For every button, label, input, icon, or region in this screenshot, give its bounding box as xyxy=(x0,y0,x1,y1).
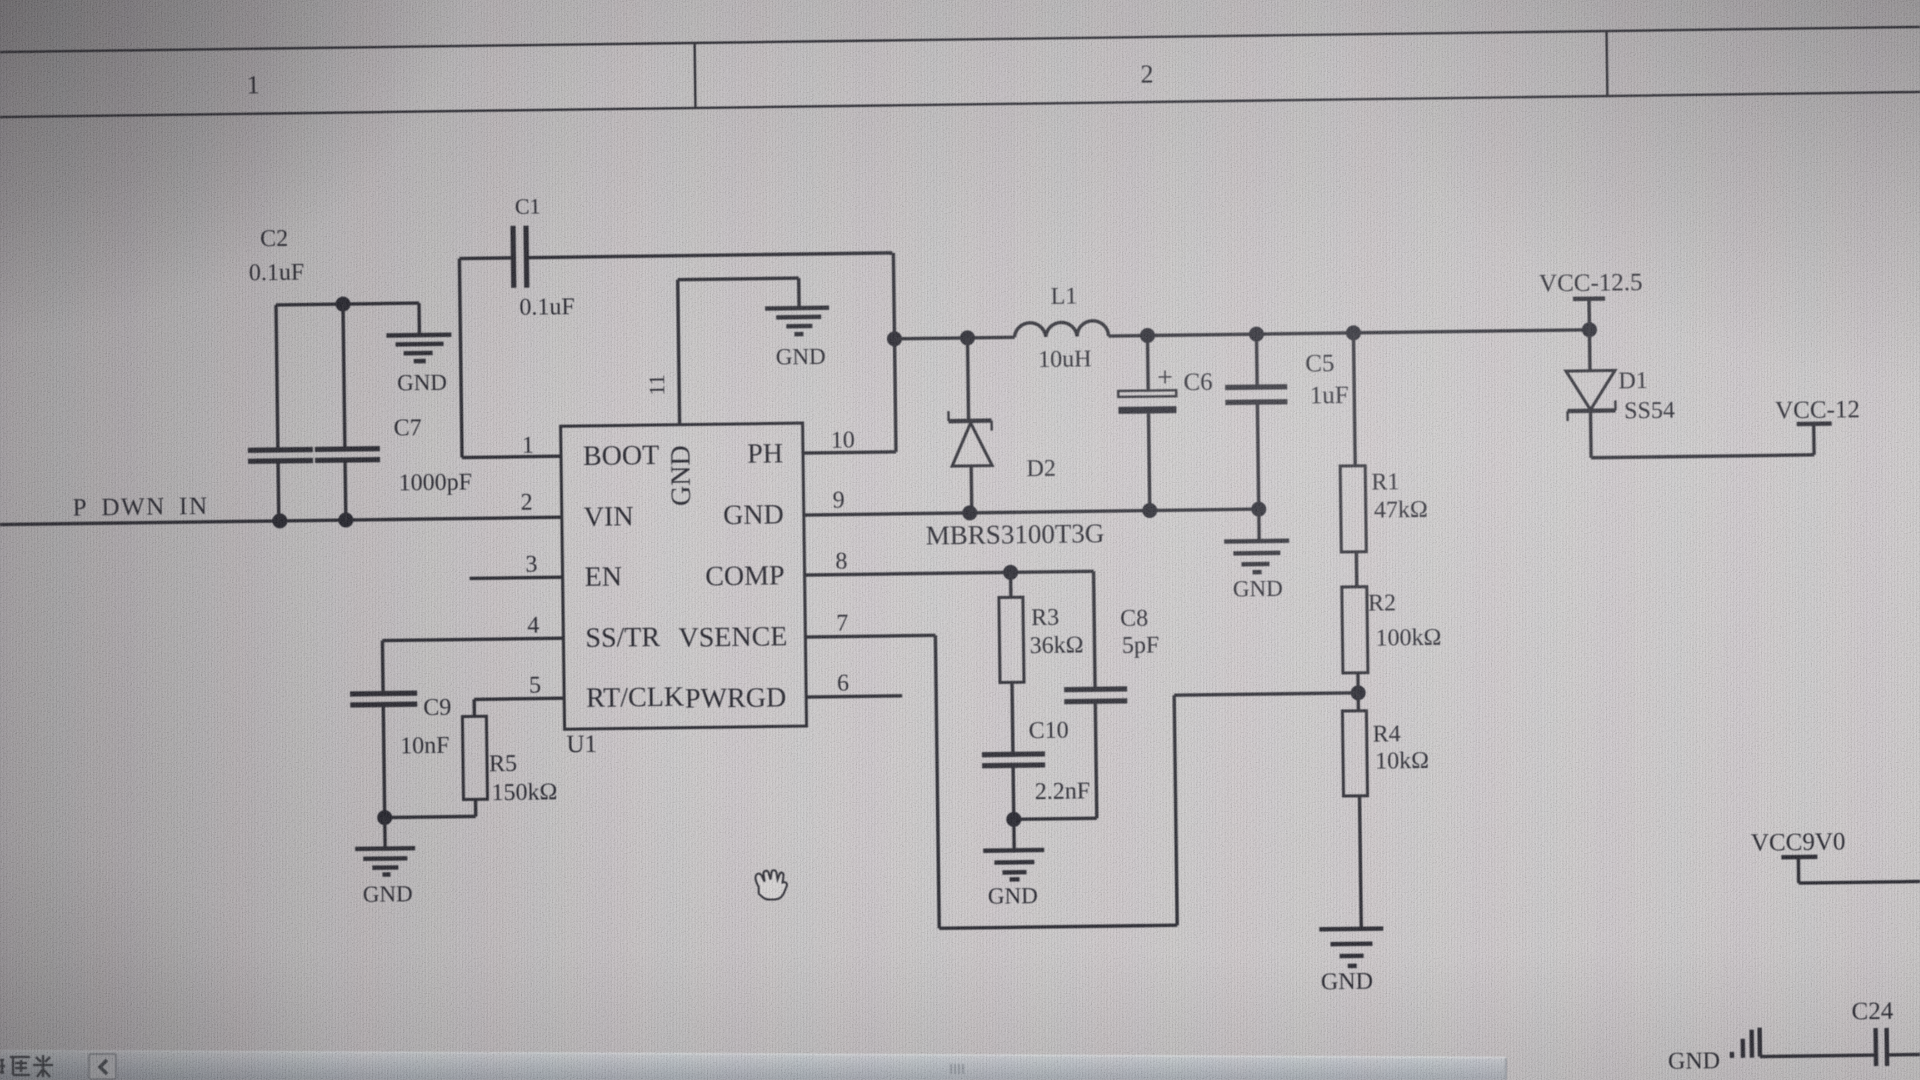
ground symbol below R4 xyxy=(1319,929,1384,996)
svg-text:10kΩ: 10kΩ xyxy=(1375,748,1429,775)
svg-text:150kΩ: 150kΩ xyxy=(491,779,557,806)
svg-text:C7: C7 xyxy=(393,415,421,441)
node junction C10/C8/GND xyxy=(1006,812,1021,827)
svg-text:R4: R4 xyxy=(1373,721,1401,747)
wire pin1 BOOT xyxy=(462,456,561,457)
svg-text:2.2nF: 2.2nF xyxy=(1035,778,1091,805)
svg-text:100kΩ: 100kΩ xyxy=(1375,625,1441,652)
IC pin name EN xyxy=(584,561,622,592)
node junction D1-top xyxy=(1582,322,1597,337)
svg-text:0.1uF: 0.1uF xyxy=(249,260,305,287)
svg-text:VCC9V0: VCC9V0 xyxy=(1751,828,1846,856)
sheet zone border bottom line xyxy=(0,92,1920,118)
svg-text:9: 9 xyxy=(832,488,844,514)
svg-text:VCC-12: VCC-12 xyxy=(1775,396,1860,424)
IC pin name PWRGD xyxy=(685,682,787,714)
svg-text:10uH: 10uH xyxy=(1038,346,1092,373)
ground symbol below C9 xyxy=(355,817,416,907)
svg-text:+: + xyxy=(1157,362,1173,393)
svg-text:D1: D1 xyxy=(1618,368,1648,394)
IC pin name BOOT xyxy=(583,440,660,472)
sheet zone border top line xyxy=(0,27,1920,53)
IC pin name COMP xyxy=(705,560,785,592)
wire C2/C7 top xyxy=(276,303,419,305)
pin number 1 xyxy=(522,433,534,459)
capacitor C24 partial xyxy=(1759,997,1920,1067)
svg-text:U1: U1 xyxy=(566,731,597,758)
zone label 2 xyxy=(1140,59,1153,88)
net label P_DWN_IN xyxy=(72,493,208,522)
pin number 11 rotated xyxy=(644,374,669,396)
svg-text:1: 1 xyxy=(246,70,259,99)
resistor R5 xyxy=(383,698,557,817)
svg-text:C5: C5 xyxy=(1305,350,1335,377)
power symbol VCC-12.5 xyxy=(1539,269,1643,330)
zone divider 2 xyxy=(1605,31,1608,96)
wire pin4 SS/TR xyxy=(382,612,563,640)
power symbol VCC9V0 xyxy=(1751,827,1920,884)
svg-text:6: 6 xyxy=(837,670,849,696)
sheet zone band highlight xyxy=(0,27,1920,118)
svg-text:C8: C8 xyxy=(1120,606,1148,632)
svg-text:GND: GND xyxy=(723,499,784,531)
svg-text:GND: GND xyxy=(1668,1048,1720,1075)
svg-text:GND: GND xyxy=(776,344,826,370)
svg-text:1uF: 1uF xyxy=(1310,382,1349,410)
node junction C7-top xyxy=(335,296,350,311)
wire pin9 GND net row xyxy=(803,482,1258,515)
svg-text:L1: L1 xyxy=(1050,283,1077,309)
svg-text:C9: C9 xyxy=(423,695,451,721)
wire switch node to L1 xyxy=(895,337,1015,339)
svg-text:PWRGD: PWRGD xyxy=(685,682,787,714)
wire pin5 RT/CLK xyxy=(474,672,564,699)
power symbol VCC-12 xyxy=(1775,396,1860,424)
IC pin name GND xyxy=(723,499,784,531)
scrollbar grip xyxy=(951,1064,963,1074)
svg-text:5: 5 xyxy=(529,673,541,699)
resistor R2 xyxy=(1342,586,1442,693)
capacitor C2 xyxy=(245,226,314,522)
svg-text:47kΩ: 47kΩ xyxy=(1374,497,1428,524)
node junction C6-bottom xyxy=(1142,503,1157,518)
svg-text:11: 11 xyxy=(644,374,669,396)
svg-text:EN: EN xyxy=(584,561,622,592)
wire pin3 EN stub xyxy=(469,551,562,578)
svg-text:7: 7 xyxy=(836,610,848,636)
svg-text:SS/TR: SS/TR xyxy=(585,622,660,654)
capacitor C7 xyxy=(313,302,472,520)
capacitor C8 xyxy=(1011,570,1162,819)
svg-text:GND: GND xyxy=(1233,576,1283,602)
status text 厘米 glyphs xyxy=(0,1055,53,1077)
svg-text:C6: C6 xyxy=(1183,369,1213,396)
svg-text:R3: R3 xyxy=(1031,605,1059,631)
inductor L1 xyxy=(1014,283,1109,373)
svg-text:P DWN IN: P DWN IN xyxy=(72,493,208,522)
IC pin name VIN xyxy=(584,501,634,533)
svg-text:R1: R1 xyxy=(1371,469,1399,495)
svg-text:10: 10 xyxy=(831,427,855,453)
ground symbol at pin11 xyxy=(765,308,830,370)
svg-text:5pF: 5pF xyxy=(1122,632,1160,658)
resistor R1 xyxy=(1338,332,1428,587)
node junction D2-bottom xyxy=(962,505,977,520)
ground symbol rotated at sheet corner xyxy=(1668,1028,1761,1075)
svg-text:1000pF: 1000pF xyxy=(399,469,473,496)
diode D2 xyxy=(923,336,1104,550)
svg-text:1: 1 xyxy=(522,433,534,459)
scrollbar strip xyxy=(0,1051,1506,1080)
ground symbol at C2/C7 xyxy=(386,303,452,396)
wire P_DWN_IN to VIN xyxy=(0,517,562,524)
node junction C7-bottom xyxy=(338,512,353,527)
svg-text:36kΩ: 36kΩ xyxy=(1029,632,1083,659)
svg-text:R2: R2 xyxy=(1368,590,1396,616)
svg-text:COMP: COMP xyxy=(705,560,785,592)
op IC U1 box xyxy=(561,423,807,758)
zone divider 1 xyxy=(693,43,696,108)
IC pin name PH xyxy=(747,438,783,469)
svg-text:VCC-12.5: VCC-12.5 xyxy=(1539,269,1643,297)
svg-text:D2: D2 xyxy=(1026,456,1056,482)
svg-text:BOOT: BOOT xyxy=(583,440,660,472)
scrollbar left button xyxy=(89,1054,116,1079)
IC pin name SS/TR xyxy=(585,622,660,654)
svg-text:2: 2 xyxy=(520,490,532,516)
node junction C5-bottom xyxy=(1251,502,1266,517)
svg-text:C2: C2 xyxy=(260,226,288,252)
IC pin name RT/CLK xyxy=(586,682,684,714)
svg-text:C1: C1 xyxy=(515,193,541,218)
resistor R3 xyxy=(999,571,1085,754)
svg-text:GND: GND xyxy=(363,881,413,907)
node junction COMP/R3 xyxy=(1003,565,1018,580)
svg-text:2: 2 xyxy=(1140,59,1153,88)
node junction R1-top xyxy=(1346,325,1361,340)
ground symbol below C5 xyxy=(1224,509,1290,602)
svg-text:SS54: SS54 xyxy=(1624,398,1675,425)
svg-text:3: 3 xyxy=(525,552,537,578)
pin number 10 xyxy=(831,427,855,453)
wire pin7 VSENCE feedback xyxy=(805,604,1361,930)
svg-text:GND: GND xyxy=(397,370,447,396)
diode D1 xyxy=(1565,329,1675,458)
capacitor C6 polarized xyxy=(1117,335,1214,511)
IC vertical GND label xyxy=(665,445,697,506)
node junction PH-L1 xyxy=(887,331,902,346)
hand cursor xyxy=(755,870,787,900)
svg-text:RT/CLK: RT/CLK xyxy=(586,682,684,714)
capacitor C10 xyxy=(981,717,1090,819)
svg-text:10nF: 10nF xyxy=(400,733,450,760)
svg-text:4: 4 xyxy=(527,613,539,639)
svg-text:MBRS3100T3G: MBRS3100T3G xyxy=(926,518,1105,550)
svg-text:0.1uF: 0.1uF xyxy=(519,294,575,321)
wire PH vertical xyxy=(893,253,896,452)
IC pin name VSENCE xyxy=(678,621,787,653)
ground symbol below C10 xyxy=(983,819,1045,909)
svg-text:8: 8 xyxy=(835,548,847,574)
wire output node row xyxy=(1108,330,1589,336)
wire pin2 VIN entry xyxy=(520,490,532,516)
svg-text:C10: C10 xyxy=(1028,718,1068,745)
svg-text:PH: PH xyxy=(747,438,783,469)
svg-text:R5: R5 xyxy=(489,751,517,777)
svg-text:C24: C24 xyxy=(1851,998,1894,1026)
node junction C6-top xyxy=(1140,328,1155,343)
svg-text:GND: GND xyxy=(988,883,1038,909)
wire pin6 PWRGD stub xyxy=(806,670,902,697)
svg-text:VSENCE: VSENCE xyxy=(678,621,787,653)
zone label 1 xyxy=(246,70,259,99)
wire D1 to VCC-12 xyxy=(1591,424,1814,458)
node junction R2/R4 xyxy=(1351,685,1366,700)
node junction C9/R5 xyxy=(377,810,392,825)
wire pin11 ground net xyxy=(678,278,801,425)
node junction C2-bottom xyxy=(272,513,287,528)
node junction D2-top xyxy=(960,330,975,345)
wire pin10 PH xyxy=(803,452,896,453)
svg-text:GND: GND xyxy=(1321,969,1373,996)
capacitor C5 xyxy=(1224,333,1350,510)
svg-text:GND: GND xyxy=(665,445,697,506)
svg-text:VIN: VIN xyxy=(584,501,634,533)
wire pin8 COMP xyxy=(804,545,1093,575)
capacitor C1 xyxy=(459,189,895,458)
capacitor C9 xyxy=(349,640,452,818)
resistor R4 xyxy=(1342,692,1431,929)
node junction C5-top xyxy=(1249,327,1264,342)
